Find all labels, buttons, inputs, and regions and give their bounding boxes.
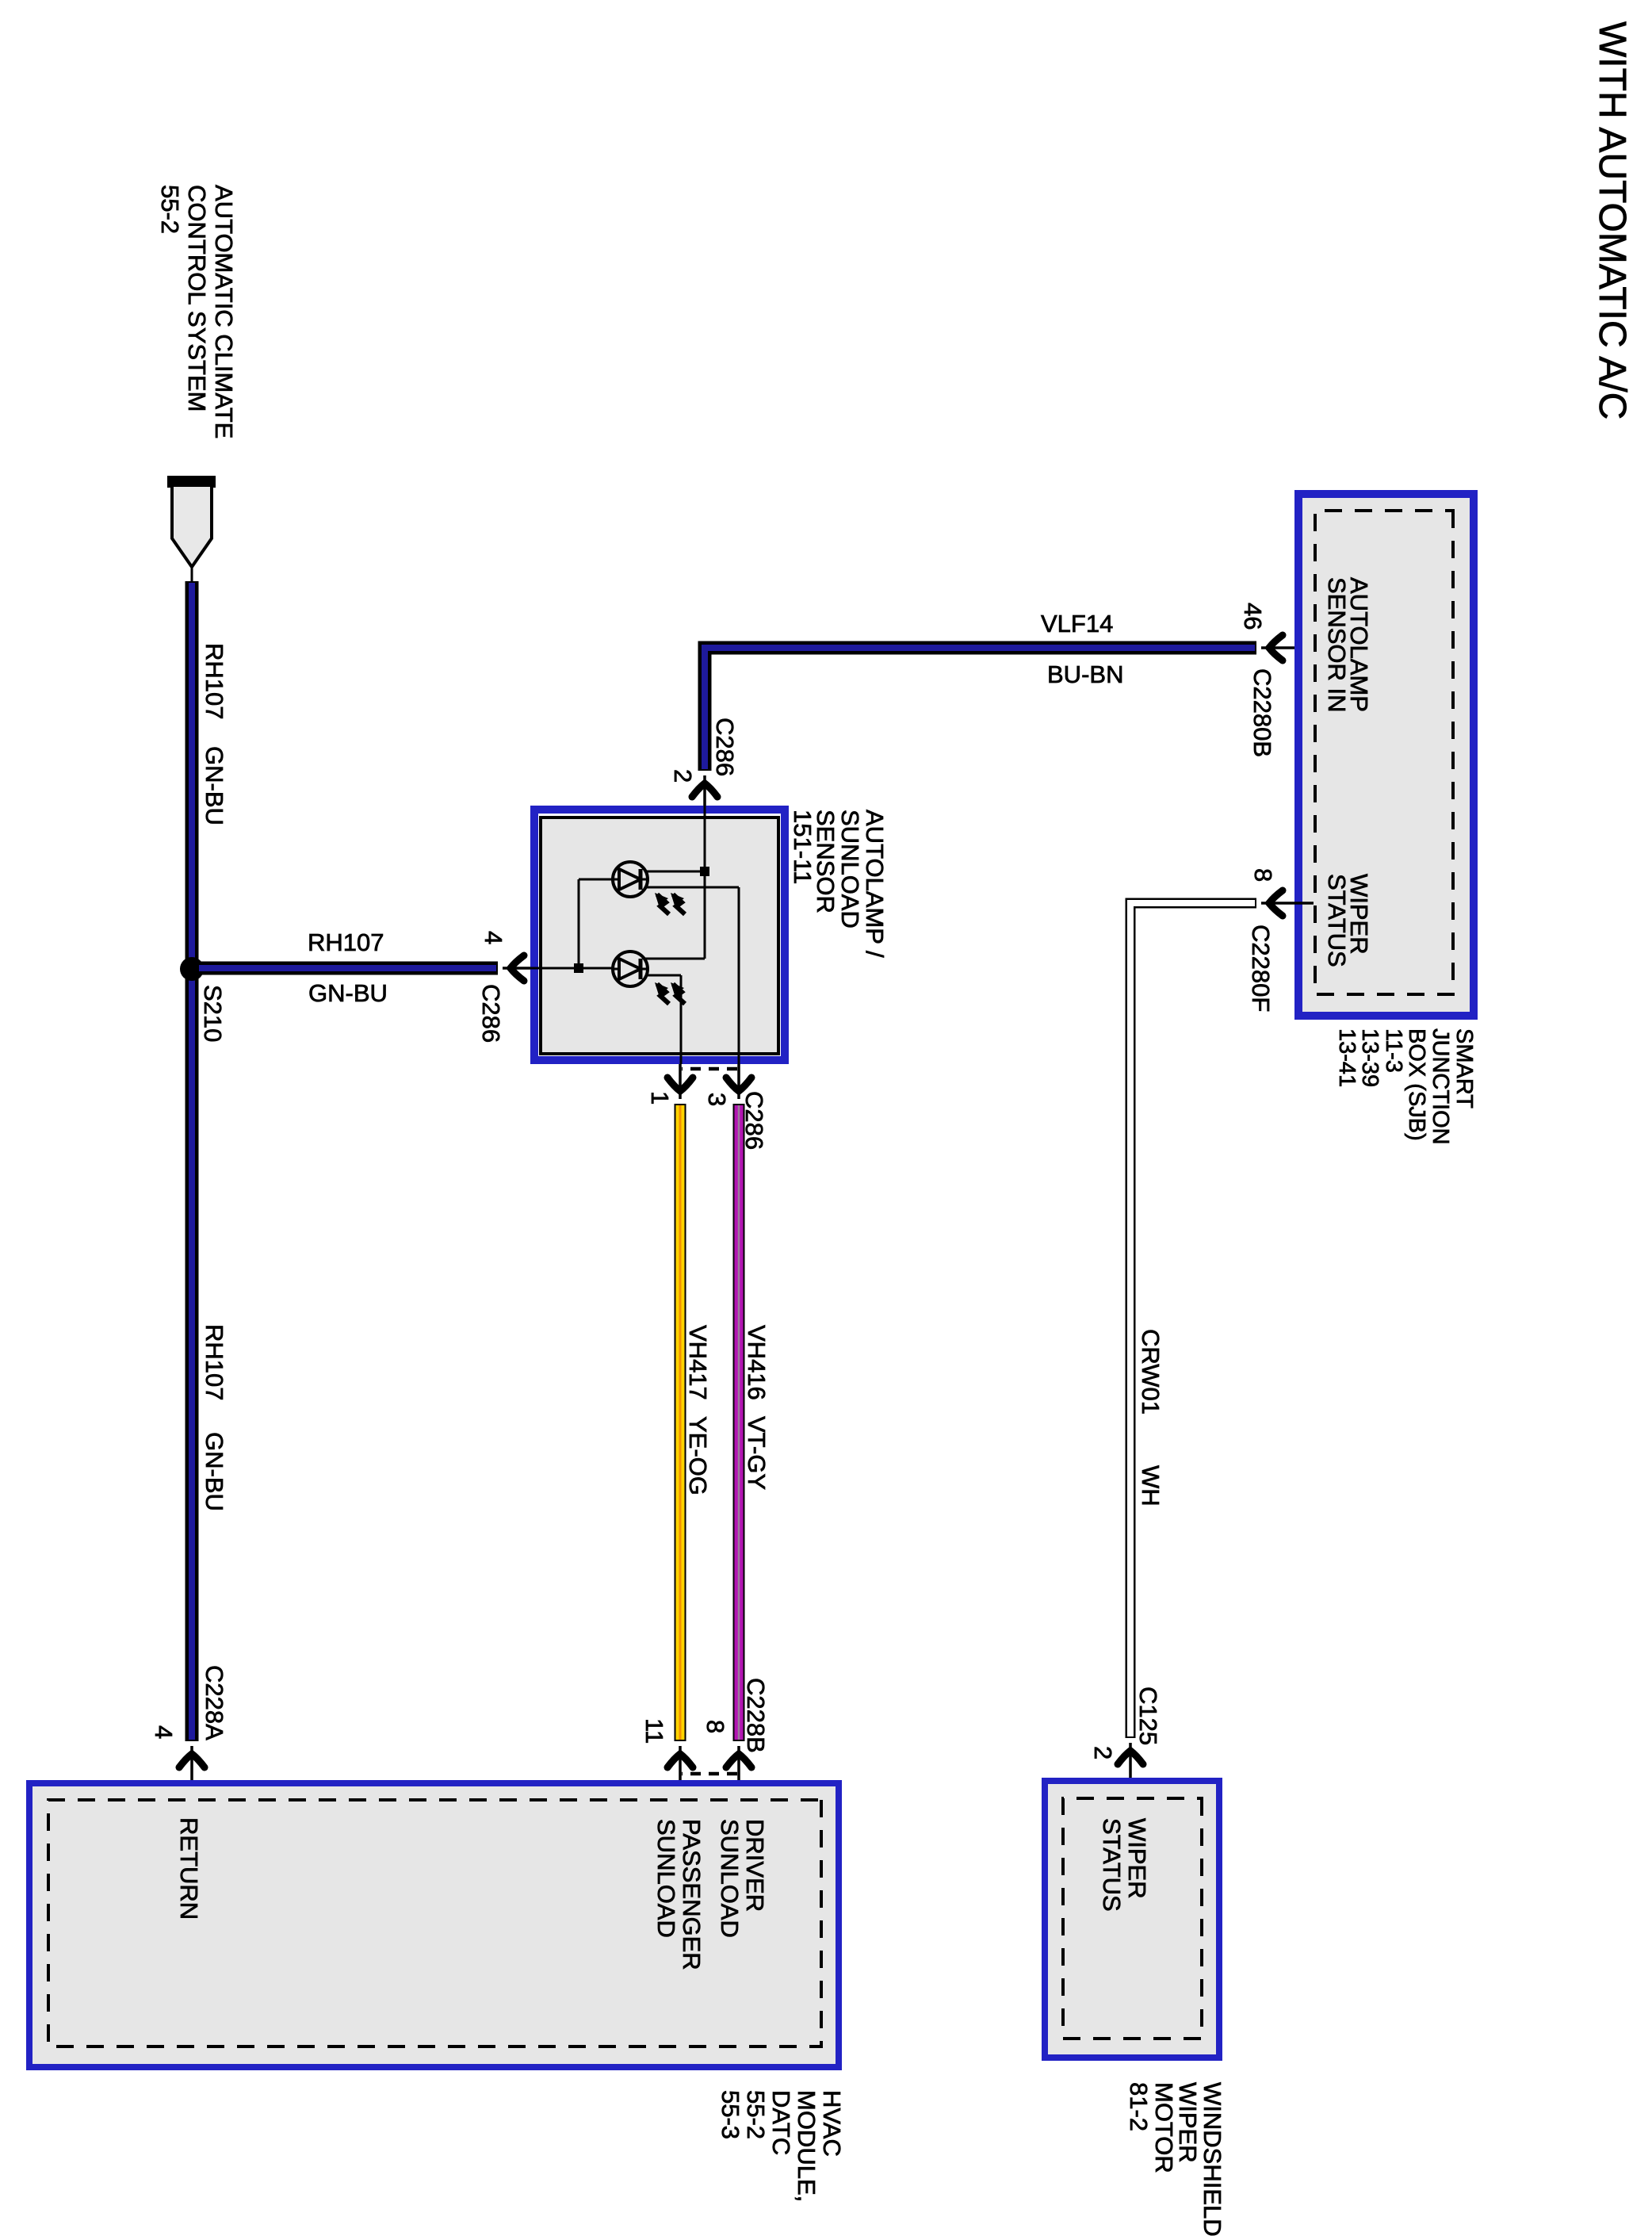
label GN-BU (left segment) (201, 746, 228, 825)
svg-text:BOX (SJB): BOX (SJB) (1404, 1028, 1429, 1141)
wire internal pin2 feed (644, 806, 705, 959)
node S210 splice dot (180, 957, 204, 981)
svg-text:CRW01: CRW01 (1137, 1329, 1164, 1415)
pin number 4 (HVAC return) (150, 1725, 178, 1739)
svg-text:SENSOR IN: SENSOR IN (1323, 577, 1351, 713)
svg-text:RH107: RH107 (201, 1324, 228, 1401)
svg-text:BU-BN: BU-BN (1047, 660, 1123, 688)
photodiode D2 (sunload) (613, 951, 685, 1004)
label RH107 (branch, rotated) (308, 928, 384, 956)
pin number 8 (SJB) (1249, 868, 1277, 882)
pin 2 connector C286 arrow at sensor top (692, 775, 717, 806)
svg-text:STATUS: STATUS (1098, 1818, 1126, 1912)
svg-text:VH416: VH416 (743, 1325, 771, 1400)
off-page connector pentagon (to automatic climate control system) (167, 476, 216, 582)
label VT-GY (743, 1416, 771, 1490)
label RH107 (right segment) (201, 1324, 228, 1401)
label GN-BU (right segment) (201, 1432, 228, 1511)
svg-text:C125: C125 (1134, 1687, 1162, 1745)
svg-text:STATUS: STATUS (1323, 874, 1351, 967)
pin number 2 (wiper motor) (1089, 1746, 1117, 1759)
svg-text:C286: C286 (711, 718, 739, 776)
wire VLF14 BU-BN (705, 648, 1256, 771)
svg-text:AUTOMATIC CLIMATE: AUTOMATIC CLIMATE (210, 185, 238, 438)
svg-text:RETURN: RETURN (175, 1817, 203, 1920)
svg-text:S210: S210 (199, 985, 227, 1042)
dashed connector bracket at HVAC pins 8-11 (682, 1772, 737, 1776)
svg-text:8: 8 (1249, 868, 1277, 882)
pin number 8 (HVAC) (702, 1720, 729, 1733)
svg-text:VT-GY: VT-GY (743, 1416, 771, 1490)
svg-text:2: 2 (1089, 1746, 1117, 1759)
label AUTOLAMP SENSOR IN (1323, 577, 1373, 713)
pin number 4 (sensor) (480, 931, 507, 944)
label VH417 (684, 1325, 712, 1400)
label WIPER STATUS (wiper motor) (1098, 1818, 1151, 1912)
pin 46 connector C2280B arrow at SJB (1261, 635, 1314, 660)
node junction dot on pin2 feed (700, 867, 709, 876)
svg-text:VH417: VH417 (684, 1325, 712, 1400)
label WH (1137, 1465, 1164, 1507)
wire RH107 GN-BU branch to sunload sensor pin 4 (199, 962, 498, 975)
connector label C228B (742, 1678, 770, 1753)
svg-text:SUNLOAD: SUNLOAD (652, 1819, 680, 1938)
svg-text:GN-BU: GN-BU (308, 979, 388, 1007)
svg-text:GN-BU: GN-BU (201, 1432, 228, 1511)
pin 3 connector arrow at sensor (726, 1078, 751, 1091)
label VH416 (743, 1325, 771, 1400)
label RH107 (left segment) (201, 643, 228, 720)
svg-text:C286: C286 (740, 1091, 768, 1150)
dashed connector bracket at sensor pins 1-3 (682, 1067, 737, 1071)
svg-text:SUNLOAD: SUNLOAD (716, 1819, 744, 1938)
svg-text:AUTOLAMP /: AUTOLAMP / (861, 810, 889, 958)
svg-text:JUNCTION: JUNCTION (1428, 1028, 1453, 1145)
wire internal sensor common to pin 4 (530, 879, 613, 968)
svg-text:PASSENGER: PASSENGER (678, 1819, 706, 1970)
label SMART JUNCTION BOX (SJB) 11-3 13-39 13-41 (1334, 1028, 1477, 1145)
pin number 2 (sensor) (669, 769, 697, 783)
svg-text:13-41: 13-41 (1334, 1028, 1359, 1087)
label VLF14 (rotated) (1041, 610, 1113, 637)
svg-text:HVAC: HVAC (818, 2090, 846, 2157)
component box HVAC MODULE DATC (29, 1783, 839, 2067)
connector label C2280F (1247, 925, 1275, 1012)
component box SMART JUNCTION BOX (SJB) (1298, 494, 1474, 1016)
svg-text:46: 46 (1239, 603, 1267, 630)
connector label C286 (pin 2) (711, 718, 739, 776)
pin 1 connector arrow at sensor (667, 1078, 693, 1091)
pin 8 connector arrow into HVAC (726, 1746, 751, 1800)
pin number 3 (sensor) (703, 1093, 731, 1106)
wire RH107 GN-BU main horizontal run (185, 581, 199, 1741)
label HVAC MODULE, DATC 55-2 55-3 (717, 2090, 846, 2202)
svg-text:SMART: SMART (1451, 1028, 1477, 1108)
svg-text:11-3: 11-3 (1381, 1028, 1406, 1073)
label GN-BU (branch, rotated) (308, 979, 388, 1007)
component box AUTOLAMP/SUNLOAD SENSOR (534, 810, 785, 1060)
svg-text:WH: WH (1137, 1465, 1164, 1507)
label PASSENGER SUNLOAD (652, 1819, 706, 1970)
svg-text:SUNLOAD: SUNLOAD (836, 810, 864, 928)
label RETURN (175, 1817, 203, 1920)
wire internal sensor output to pin 3 (645, 887, 739, 1064)
pin 4 connector C286 arrow at sensor (503, 955, 530, 981)
connector label C286 (pin 4) (477, 984, 505, 1043)
label BU-BN (rotated) (1047, 660, 1123, 688)
svg-text:WIPER: WIPER (1123, 1818, 1151, 1899)
pin 11 connector arrow into HVAC (667, 1746, 693, 1800)
svg-text:55-2: 55-2 (156, 185, 184, 234)
node AUTOMATIC CLIMATE CONTROL SYSTEM label (156, 185, 238, 438)
wire VH416 VT-GY (pin 3 to HVAC pin 8) (737, 1064, 740, 1741)
svg-text:YE-OG: YE-OG (684, 1416, 712, 1495)
photodiode D1 (autolamp) (613, 862, 685, 914)
svg-text:RH107: RH107 (308, 928, 384, 956)
pin number 46 (1239, 603, 1267, 630)
label AUTOLAMP / SUNLOAD SENSOR 151-11 (789, 810, 889, 958)
svg-text:WINDSHIELD: WINDSHIELD (1199, 2082, 1226, 2236)
svg-text:55-3: 55-3 (717, 2090, 744, 2139)
node junction dot on pin4 line (574, 963, 583, 973)
svg-text:4: 4 (150, 1725, 178, 1739)
svg-text:C286: C286 (477, 984, 505, 1043)
wire VH417 YE-OG (pin 1 to HVAC pin 11) (679, 1064, 682, 1741)
svg-text:CONTROL SYSTEM: CONTROL SYSTEM (183, 185, 211, 412)
svg-text:RH107: RH107 (201, 643, 228, 720)
connector C228A arrow into HVAC module (179, 1746, 205, 1798)
label DRIVER SUNLOAD (716, 1819, 769, 1938)
svg-text:MODULE,: MODULE, (793, 2090, 820, 2202)
svg-text:DATC: DATC (767, 2090, 795, 2155)
connector label C228A (201, 1665, 228, 1740)
svg-text:MOTOR: MOTOR (1150, 2082, 1178, 2173)
svg-text:VLF14: VLF14 (1041, 610, 1113, 637)
svg-text:4: 4 (480, 931, 507, 944)
wire internal sensor output to pin 1 (647, 975, 681, 1064)
svg-text:13-39: 13-39 (1357, 1028, 1382, 1087)
wire CRW01 WH (1130, 903, 1256, 1738)
connector label C125 (1134, 1687, 1162, 1745)
svg-text:151-11: 151-11 (789, 810, 816, 884)
pin number 1 (sensor) (646, 1091, 674, 1105)
pin number 11 (HVAC) (641, 1718, 668, 1744)
svg-text:GN-BU: GN-BU (201, 746, 228, 825)
svg-text:11: 11 (641, 1718, 668, 1744)
label S210 (199, 985, 227, 1042)
svg-text:C2280B: C2280B (1249, 668, 1276, 757)
title WITH AUTOMATIC A/C (1591, 21, 1633, 419)
svg-text:DRIVER: DRIVER (741, 1819, 769, 1912)
label WINDSHIELD WIPER MOTOR 81-2 (1125, 2082, 1226, 2236)
svg-text:WITH AUTOMATIC A/C: WITH AUTOMATIC A/C (1591, 21, 1633, 419)
connector label C286 (pins 1,3) (740, 1091, 768, 1150)
svg-text:55-2: 55-2 (742, 2090, 770, 2139)
svg-text:3: 3 (703, 1093, 731, 1106)
svg-text:C2280F: C2280F (1247, 925, 1275, 1012)
connector label C2280B (1249, 668, 1276, 757)
svg-text:C228A: C228A (201, 1665, 228, 1740)
component box WINDSHIELD WIPER MOTOR (1045, 1781, 1219, 2058)
svg-text:1: 1 (646, 1091, 674, 1105)
svg-text:2: 2 (669, 769, 697, 783)
svg-text:C228B: C228B (742, 1678, 770, 1753)
svg-text:8: 8 (702, 1720, 729, 1733)
label CRW01 (1137, 1329, 1164, 1415)
svg-text:81-2: 81-2 (1125, 2082, 1153, 2131)
label WIPER STATUS (SJB) (1323, 874, 1373, 967)
connector C125 arrow into wiper motor (1118, 1743, 1143, 1797)
svg-text:WIPER: WIPER (1174, 2082, 1202, 2163)
label YE-OG (684, 1416, 712, 1495)
pin 8 connector C2280F arrow at SJB (1261, 890, 1314, 916)
